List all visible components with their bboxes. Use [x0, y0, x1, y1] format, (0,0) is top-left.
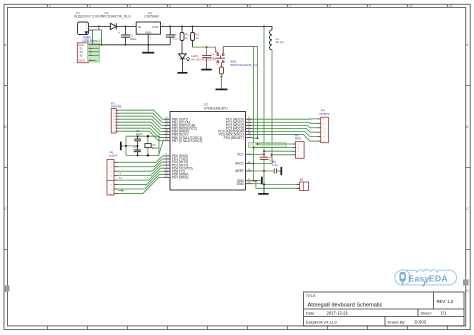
capacitor C6 on AREF — [273, 169, 275, 174]
svg-text:AVCC: AVCC — [235, 162, 244, 166]
node C4b bottom — [137, 154, 139, 156]
svg-text:pd0-4: pd0-4 — [110, 154, 118, 158]
wire crystal right vertical — [158, 136, 160, 155]
ground bar AREF — [280, 167, 282, 175]
P4 pin 3 stub — [317, 127, 321, 129]
node C2 top — [125, 25, 127, 27]
wire USB ID — [93, 54, 100, 56]
wire GND to P7 pin2 — [256, 181, 300, 189]
svg-text:6: 6 — [249, 4, 251, 8]
ground symbol under LED1 — [177, 72, 187, 74]
wire switch to RESET rail — [223, 46, 257, 48]
node RESET at PC6 — [257, 137, 259, 139]
P4 pin 5 stub — [317, 136, 321, 138]
USB1 pin 2 stub — [88, 47, 92, 49]
capacitor C4b 22pF — [137, 146, 139, 150]
ground symbol under SW1 — [216, 88, 228, 90]
svg-text:GND: GND — [145, 30, 151, 34]
U1 pin PB0 — [163, 118, 170, 120]
svg-text:A6: A6 — [300, 178, 304, 182]
P3 pin 4 stub — [116, 118, 119, 120]
wire USB VCC red jog — [93, 44, 102, 46]
ground rail GND — [101, 44, 170, 46]
node P5-3 tap — [263, 150, 265, 152]
regulator U2 — [136, 22, 160, 34]
svg-text:8MHz: 8MHz — [152, 146, 160, 150]
svg-text:0.1u: 0.1u — [272, 163, 278, 167]
U1 pin PB2 — [163, 124, 170, 126]
svg-text:PD7 (AIN1): PD7 (AIN1) — [172, 176, 189, 180]
wire U2 OUT rail — [161, 25, 273, 27]
node reset/C4 junction — [206, 46, 208, 48]
P3 pin 2 stub — [116, 112, 119, 114]
wire USB D- — [93, 47, 100, 49]
U1 pin PB4 — [163, 130, 170, 132]
P6 pin 2 stub — [114, 166, 118, 168]
wire PC1 to P4-2 — [253, 122, 318, 123]
capacitor C2 — [125, 26, 127, 35]
svg-text:PB7 (XTAL2/TOSC2): PB7 (XTAL2/TOSC2) — [172, 139, 203, 143]
P3 pin 6 stub — [116, 124, 119, 126]
connector P7 — [300, 182, 309, 191]
U1 pin PD7 — [163, 176, 170, 178]
wire P6-7 to PD6 — [118, 174, 163, 189]
net arrow P1 pin1 — [84, 31, 88, 35]
U1 pin PC3 — [246, 127, 253, 129]
svg-text:TITLE:: TITLE: — [306, 294, 316, 298]
title block — [304, 292, 465, 326]
P5 wires selection highlight — [248, 143, 286, 148]
P6 pin 5 stub — [114, 179, 118, 181]
P4 pin 2 stub — [317, 122, 321, 124]
svg-text:VCC: VCC — [237, 152, 245, 156]
no-connect stub P6 — [118, 190, 123, 192]
wire GND vertical net — [253, 47, 255, 181]
svg-text:ATMEGA8L8PU: ATMEGA8L8PU — [204, 107, 228, 111]
ground symbol under U2 — [147, 45, 149, 53]
resistor R1 — [181, 26, 183, 32]
svg-text:5: 5 — [209, 4, 211, 8]
U1 pin PC0 — [246, 118, 253, 120]
svg-text:1k: 1k — [195, 36, 199, 40]
wire GND pins to T-bar — [253, 180, 262, 182]
svg-text:WJ2EDGVC-5.08-2P: WJ2EDGVC-5.08-2P — [74, 14, 104, 18]
svg-text:PC6 (RESET): PC6 (RESET) — [224, 136, 244, 140]
U1 pin PB7 — [163, 140, 170, 142]
capacitor C3 — [169, 26, 171, 35]
resistor R2 — [192, 26, 194, 32]
svg-text:EasyEDA V4.11.9: EasyEDA V4.11.9 — [306, 320, 337, 325]
ground symbol under C4 — [201, 69, 212, 71]
node P5-4 tap — [271, 154, 273, 156]
svg-text:10 uH: 10 uH — [276, 40, 284, 44]
P5 pin 1 stub — [292, 143, 295, 145]
wire AREF net — [253, 170, 274, 172]
LED LED1 — [179, 54, 187, 59]
wire P1 pin1 stub join — [92, 29, 94, 31]
wire P5-1 — [258, 143, 293, 145]
wire +5V vertical to VCC — [263, 26, 265, 157]
wire XTAL2 bottom — [126, 141, 163, 156]
svg-text:USB-Micro-1: USB-Micro-1 — [82, 39, 100, 43]
capacitor C5 — [260, 156, 269, 158]
svg-text:RVG: RVG — [295, 137, 302, 141]
ground T-bar MCU — [261, 177, 263, 185]
USB1 pin 3 stub — [88, 51, 92, 53]
U1 pin PB3 — [163, 127, 170, 129]
wire D1 to U2 IN — [116, 25, 136, 27]
svg-text:GND: GND — [78, 59, 84, 63]
node C1 top — [137, 135, 139, 137]
wire PC0 to P4-1 — [253, 118, 318, 120]
svg-text:9: 9 — [369, 4, 371, 8]
svg-text:4: 4 — [169, 4, 171, 8]
switch SW1 — [216, 51, 218, 53]
svg-text:0.1u: 0.1u — [173, 36, 179, 40]
svg-text:2017-12-21: 2017-12-21 — [327, 310, 349, 315]
wire RESET vertical to PC6 — [253, 47, 258, 139]
wire PC4 to P4-5 — [253, 131, 318, 136]
P4 pin 6 stub — [317, 140, 321, 142]
connector USB1 — [77, 43, 88, 63]
svg-text:AREF: AREF — [235, 169, 244, 173]
capacitor C4 — [206, 47, 208, 55]
U2 GND pin stub — [147, 34, 149, 45]
USB1 pin 5 stub — [88, 59, 92, 61]
wire P6-5 to PD4 — [118, 168, 163, 180]
wire PC3 to P4-4 — [253, 128, 318, 132]
wire P6-8 to PD7 — [118, 177, 163, 193]
node caps mid — [137, 145, 139, 147]
wire P3-1 to PB0 — [119, 110, 163, 119]
node P5-1 tap — [257, 143, 259, 145]
ground bar crystal — [120, 142, 122, 151]
wire P3-5 to PB4 — [119, 122, 163, 131]
inductor L1 — [271, 26, 273, 30]
P4 pin 4 stub — [317, 131, 321, 133]
U1 pin PD5 — [163, 170, 170, 172]
P3 pin 5 stub — [116, 121, 119, 123]
P6 pin 8 stub — [114, 192, 118, 194]
P6 pin 7 stub — [114, 188, 118, 190]
USB1 pin 4 stub — [88, 54, 92, 56]
capacitor C1 — [137, 136, 139, 139]
U1 pin PD6 — [163, 173, 170, 175]
MCU U1 ATMEGA8L8PU — [170, 112, 246, 191]
P5 pin 2 stub — [292, 147, 295, 149]
svg-text:3: 3 — [129, 4, 131, 8]
P3 pin 1 stub — [116, 109, 119, 111]
svg-text:Easy: Easy — [408, 274, 429, 284]
P3 pin 8 stub — [116, 130, 119, 132]
node R1 top — [181, 25, 183, 27]
U1 pin PB6 — [163, 137, 170, 139]
connector P4 PORTC — [321, 117, 329, 143]
U1 pin PC2 — [246, 124, 253, 126]
U1 pin GND 22 — [246, 183, 253, 185]
wire P3-4 to PB3 — [119, 119, 163, 128]
P6 pin 1 stub — [114, 161, 118, 163]
U1 pin VCC 7 — [246, 153, 253, 155]
P6 pin 3 stub — [114, 170, 118, 172]
svg-text:PORTB: PORTB — [111, 105, 121, 109]
svg-text:D-503: D-503 — [415, 320, 427, 325]
svg-text:1/1: 1/1 — [441, 310, 447, 315]
node GND8b — [255, 180, 257, 182]
U1 pin PC4 — [246, 130, 253, 132]
USB1 selection highlight — [88, 43, 100, 62]
svg-text:GND: GND — [237, 182, 245, 186]
U1 pin PB1 — [163, 121, 170, 123]
node X1 bottom — [147, 154, 149, 156]
resistor R3 below switch — [221, 63, 223, 67]
U1 pin PC1 — [246, 121, 253, 123]
node crystal mid left — [125, 145, 127, 147]
svg-text:1k: 1k — [185, 36, 189, 40]
node P5-2 tap — [253, 147, 255, 149]
wire USB GND down — [93, 59, 97, 61]
node AVCC crossing — [253, 163, 255, 165]
node C3 top — [169, 25, 171, 27]
wire crystal ground tap — [121, 145, 138, 147]
P7 pin stubs — [297, 183, 300, 185]
svg-text:11: 11 — [449, 4, 453, 8]
P5 pin 3 stub — [292, 150, 295, 152]
U1 pin AVCC 20 — [246, 163, 253, 165]
P6 pin 6 stub — [114, 184, 118, 186]
svg-text:22pF: 22pF — [136, 132, 143, 136]
node GND stem — [263, 183, 265, 185]
wire P6-6 to PD5 — [118, 171, 163, 184]
wire to P7 pin1 — [264, 183, 300, 185]
wire P6-4 to PD3 — [118, 165, 163, 176]
U1 pin PC5 — [246, 134, 253, 136]
wire P5-3 — [264, 150, 292, 152]
wire VCC pin stub — [253, 153, 265, 155]
EasyEDA logo watermark — [395, 270, 457, 287]
wire reset node — [193, 47, 216, 52]
U1 pin PD4 — [163, 167, 170, 169]
P5 pin 4 stub — [292, 154, 295, 156]
P3 pin 3 stub — [116, 115, 119, 117]
svg-text:Date:: Date: — [306, 310, 315, 315]
node VIN junction — [98, 25, 100, 27]
wire P3-7 to PB6 — [119, 128, 163, 137]
connector P6 — [107, 160, 114, 196]
P3 pin 7 stub — [116, 127, 119, 129]
svg-text:M7/1N4007W_RLG: M7/1N4007W_RLG — [102, 14, 131, 18]
U1 pin GND 8 — [246, 180, 253, 182]
U1 pin PC6 — [246, 137, 253, 139]
wire PC2 to P4-3 — [253, 125, 318, 127]
wire P6-3 to PD2 — [118, 162, 163, 171]
connector P1 — [78, 22, 89, 35]
node AREF crossing — [263, 170, 265, 172]
wire P3-3 to PB2 — [119, 116, 163, 125]
svg-text:22pF: 22pF — [133, 148, 140, 152]
node VCC junction — [263, 153, 265, 155]
wire P3-2 to PB1 — [119, 113, 163, 122]
wire P3-8 to PB7 — [119, 131, 163, 140]
U1 pin PD3 — [163, 164, 170, 166]
svg-text:IN: IN — [138, 25, 141, 29]
wire L1 to AVCC — [253, 50, 273, 164]
svg-text:+: + — [118, 31, 120, 35]
wire PC5 to P4-6 — [253, 135, 318, 142]
svg-text:EDA: EDA — [429, 274, 448, 284]
svg-text:SWITCH-6x6x5_TH: SWITCH-6x6x5_TH — [230, 63, 257, 67]
crystal X1 — [147, 136, 149, 143]
node X1 top — [147, 135, 149, 137]
svg-text:1: 1 — [49, 4, 51, 8]
U1 pin PD1 — [163, 158, 170, 160]
svg-text:7: 7 — [289, 4, 291, 8]
node GND8 — [253, 180, 255, 182]
wire loop P1 pin1 to USB — [93, 30, 102, 45]
svg-text:ID: ID — [80, 54, 83, 58]
U1 pin AREF 21 — [246, 170, 253, 172]
svg-text:0.1u: 0.1u — [210, 56, 216, 60]
wire P5-2 — [254, 147, 293, 149]
svg-text:2: 2 — [89, 4, 91, 8]
svg-text:Drawn By:: Drawn By: — [388, 320, 406, 325]
P4 pin 1 stub — [317, 118, 321, 120]
wire P1 pin2 to D1 — [93, 25, 110, 27]
ground symbol MCU — [263, 184, 265, 193]
svg-text:Sheet:: Sheet: — [421, 310, 432, 315]
wire P6-2 to PD1 — [118, 159, 163, 167]
wire P6-1 to PD0 — [118, 156, 163, 162]
USB1 pin 1 stub — [88, 44, 92, 46]
node +5V vertical tap — [263, 25, 265, 27]
svg-text:REV: 1.0: REV: 1.0 — [437, 299, 454, 304]
U1 pin PD2 — [163, 161, 170, 163]
diode D1 — [110, 23, 116, 29]
svg-text:10: 10 — [409, 4, 413, 8]
svg-text:L7805ABV: L7805ABV — [144, 14, 160, 18]
svg-text:Atmega8 devboard Schematic: Atmega8 devboard Schematic — [308, 302, 383, 308]
wire P3-6 to PB5 — [119, 125, 163, 134]
U1 pin PB5 — [163, 134, 170, 136]
P6 pin 4 stub — [114, 175, 118, 177]
connector P5 RVG — [296, 142, 305, 159]
wire VIN drop from top rail — [98, 26, 100, 30]
wire P5-4 — [272, 154, 293, 156]
wire crystal left vertical — [125, 136, 127, 155]
U1 pin PD0 — [163, 155, 170, 157]
connector P3 PORTB — [111, 109, 116, 134]
wire USB D+ — [93, 51, 100, 53]
svg-text:100u: 100u — [130, 37, 137, 41]
node R2 top — [192, 25, 194, 27]
svg-text:OUT: OUT — [152, 25, 159, 29]
svg-text:8: 8 — [329, 4, 331, 8]
wire XTAL1 top — [126, 136, 163, 137]
svg-text:PORTC: PORTC — [320, 112, 331, 116]
svg-text:Q: Q — [217, 62, 219, 65]
